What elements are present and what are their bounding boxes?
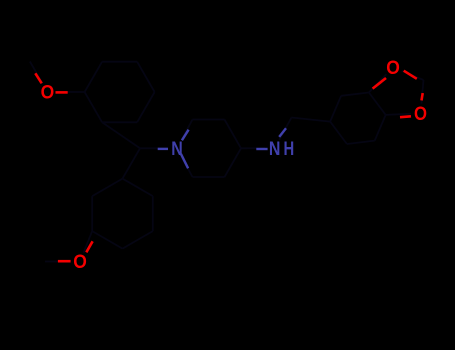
bond C6-N1 (pip) (carbon portion): [182, 157, 193, 177]
ring C edge 3 (carbon portion): [347, 141, 375, 144]
oxygen O (methoxy A): [41, 81, 55, 103]
ring C edge 2 (carbon portion): [375, 115, 386, 141]
hydrogen H of NH (amine): [283, 138, 294, 159]
oxygen O1 (dioxole): [386, 56, 400, 78]
bond ringA-CH (carbon portion): [102, 122, 140, 148]
bond C7a-O2 (dioxole) (carbon portion): [386, 114, 411, 115]
svg-text:O: O: [414, 103, 427, 124]
ring B edge 5 (carbon portion): [91, 196, 93, 231]
bond NH-CH2 (carbon portion): [279, 118, 291, 140]
svg-text:O: O: [41, 81, 55, 103]
nitrogen N of NH (amine): [269, 137, 281, 159]
pip edge C4-C5 (carbon portion): [225, 148, 242, 177]
ring A edge 2 (carbon portion): [102, 61, 137, 63]
ring B edge 6 (carbon portion): [92, 179, 122, 197]
svg-text:H: H: [283, 138, 294, 159]
svg-text:O: O: [386, 56, 400, 78]
oxygen O (methoxy B): [73, 250, 87, 272]
ring C edge 6 (carbon portion): [341, 93, 369, 96]
bond CH-ringB (carbon portion): [123, 148, 141, 178]
ring B edge 1 (carbon portion): [123, 179, 153, 197]
wire O2-CH2 red half: [422, 93, 423, 100]
wire NH-CH2 blue half: [279, 128, 286, 137]
wire C7a-O2 red half: [400, 115, 411, 118]
oxygen O2 (dioxole): [414, 103, 427, 124]
ring A edge 6 (carbon portion): [85, 92, 103, 122]
bond O2-CH2 (dioxole) (carbon portion): [421, 80, 423, 104]
pip edge C2-C3 (carbon portion): [193, 119, 225, 121]
wire N1-C2 blue half: [182, 130, 189, 141]
wire N1-C6 blue half: [181, 154, 188, 169]
ring C edge 5 (carbon portion): [330, 96, 341, 122]
ring B edge 4 (carbon portion): [92, 231, 122, 249]
bond CH2-ringC (carbon portion): [292, 118, 331, 122]
pip edge C5-C6 (carbon portion): [193, 176, 225, 178]
ring A edge 3 (carbon portion): [137, 62, 155, 92]
ring A edge 4 (carbon portion): [137, 92, 155, 122]
bond CH3-O (methoxy A) (carbon portion): [30, 62, 43, 84]
ring A edge 5 (carbon portion): [102, 121, 137, 123]
nitrogen N (piperidine): [171, 138, 183, 160]
wire O-ringA red half: [56, 91, 68, 94]
svg-text:N: N: [171, 138, 183, 160]
wire C3a-O1 red half: [373, 78, 386, 89]
bond ringB-O (carbon portion): [84, 231, 93, 253]
ring B edge 2 (carbon portion): [152, 196, 154, 231]
wire O1-CH2 red half: [404, 71, 417, 79]
bond O1-CH2 (dioxole) (carbon portion): [402, 71, 424, 80]
ring B edge 3 (carbon portion): [123, 231, 153, 249]
bond O-CH3 (methoxy B) (carbon portion): [45, 261, 71, 263]
bond CH-N1 (carbon portion): [140, 147, 168, 149]
pip edge C3-C4 (carbon portion): [225, 120, 242, 149]
svg-text:N: N: [269, 137, 281, 159]
wire methoxy A CH3-O red half: [35, 73, 41, 83]
bond C3a-O1 (dioxole) (carbon portion): [369, 74, 387, 92]
ring C edge 4 (carbon portion): [330, 122, 347, 144]
ring A edge 1 (carbon portion): [85, 62, 103, 92]
wire O-ringB red half: [86, 241, 92, 252]
svg-text:O: O: [73, 250, 87, 272]
wire C4-NH blue half: [256, 148, 267, 150]
wire O-CH3 B red half: [58, 260, 71, 263]
bond N1-C2 (pip) (carbon portion): [182, 120, 193, 140]
bond O-C1 (ring A) (carbon portion): [57, 91, 85, 93]
ring C edge 1 (carbon portion): [369, 93, 386, 115]
wire CH-N1 blue half: [158, 148, 168, 150]
bond C4-NH (carbon portion): [241, 147, 265, 149]
